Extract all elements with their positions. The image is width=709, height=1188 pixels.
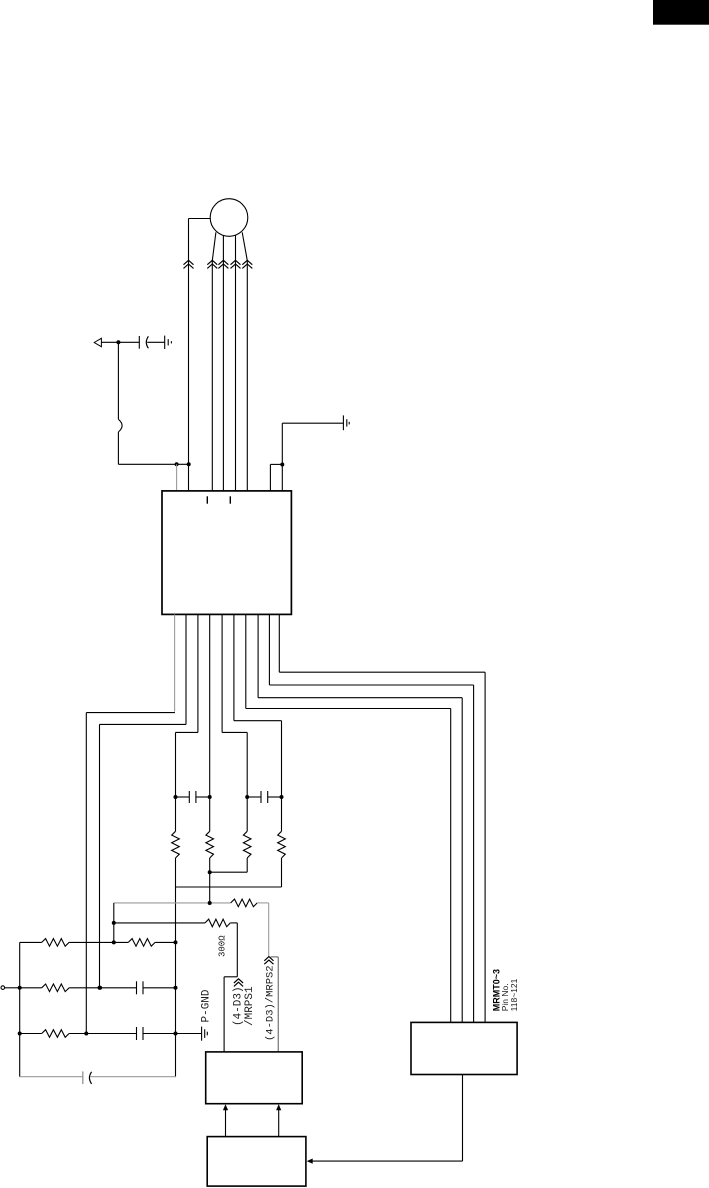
node J2 <box>175 462 179 466</box>
wire R6 to MRPS1 <box>230 922 237 924</box>
driver IC U1 <box>162 491 291 615</box>
resistor R3 <box>243 831 251 858</box>
wire p7 <box>245 614 247 708</box>
node J13 <box>98 986 102 990</box>
node J7 <box>208 870 212 874</box>
wire p4 <box>209 614 211 797</box>
wire p5 <box>221 614 223 732</box>
wire R6 left <box>114 922 205 924</box>
wire to ground G2 <box>282 422 343 424</box>
node J8 <box>208 901 212 905</box>
resistor R7 <box>42 939 69 947</box>
wire gray feedback <box>114 902 231 904</box>
wire bus left <box>19 942 21 1076</box>
wire R3 top <box>246 797 248 831</box>
wire W4 <box>235 235 237 491</box>
wire R3 bottom <box>246 858 248 872</box>
svg-text:118~121: 118~121 <box>509 978 519 1011</box>
node J14 <box>174 986 178 990</box>
wire R2 top <box>209 797 211 831</box>
node J11 <box>174 940 178 944</box>
resistor R1 <box>172 831 180 858</box>
connector arrow W5 <box>242 260 252 264</box>
wire R2 bottom <box>209 858 211 872</box>
node C2b <box>208 795 212 799</box>
capacitor C4 <box>136 981 138 994</box>
wire row1 <box>20 941 42 943</box>
node J6 <box>98 986 102 990</box>
wire p9 <box>268 614 270 685</box>
wire P-GND stem <box>176 1033 202 1035</box>
wire W2 slant <box>212 232 216 260</box>
off-page arrow <box>94 338 101 346</box>
wire row2 <box>20 987 42 989</box>
node J12 <box>18 986 22 990</box>
resistor R9 <box>42 984 69 992</box>
wire R5 tail gray <box>257 902 269 904</box>
wire row4 gray <box>20 1076 83 1078</box>
capacitor C2 <box>176 796 190 798</box>
wire p1 left <box>86 712 175 714</box>
wire R1 bottom <box>175 858 177 887</box>
capacitor C6 polarized <box>82 1071 84 1084</box>
node C2a <box>174 795 178 799</box>
wire R1 top <box>175 797 177 831</box>
wire gray corner down <box>113 903 115 943</box>
wire p8 <box>257 614 259 697</box>
node J16 <box>174 1032 178 1036</box>
wire p2 <box>185 614 187 724</box>
wire W3 <box>222 235 224 491</box>
node J4 <box>280 463 284 467</box>
wire bus right <box>175 887 177 1077</box>
node J1 <box>116 340 120 344</box>
connector CN3 <box>411 1022 517 1074</box>
wire p6 <box>233 614 235 720</box>
node J3 <box>187 462 191 466</box>
wire MRPS2 to CN <box>271 956 279 958</box>
connector CN2 <box>207 1137 306 1187</box>
wire stub J4 <box>270 463 282 465</box>
wire R4 bottom <box>281 858 283 887</box>
ground G3 P-GND <box>201 1027 203 1041</box>
wire row3 <box>20 1033 42 1035</box>
wire CN3 to CN2 <box>462 1075 464 1162</box>
node J9 <box>112 921 116 925</box>
svg-text:(4-D3)/MRPS2: (4-D3)/MRPS2 <box>265 965 277 1041</box>
connector arrow MRPS1 <box>234 979 243 983</box>
resistor R5 <box>231 899 258 907</box>
connector arrow W4 <box>231 260 241 264</box>
wire p1 gray <box>174 614 176 711</box>
resistor R4 <box>278 831 286 858</box>
wire motor left lead <box>189 218 211 220</box>
resistor R2 <box>206 831 214 858</box>
svg-text:/MRPS1: /MRPS1 <box>244 986 256 1026</box>
capacitor C3 <box>247 796 261 798</box>
resistor R8 <box>128 939 155 947</box>
resistor R10 <box>42 1030 69 1038</box>
svg-text:P-GND: P-GND <box>200 989 212 1022</box>
node J10 <box>112 940 116 944</box>
terminal T1 <box>1 986 5 990</box>
wire p3 <box>197 614 199 732</box>
wire G2 branch down <box>281 423 283 491</box>
arrow CN2-CN1 a <box>225 1106 227 1137</box>
wire W1 motor-U <box>188 219 190 491</box>
wire arrow to cap <box>101 341 139 343</box>
node C3a <box>245 795 249 799</box>
resistor R6 <box>205 919 230 927</box>
svg-text:300Ω: 300Ω <box>218 935 228 957</box>
capacitor C1 polarized <box>138 336 140 349</box>
connector arrow MRPS2 <box>264 957 273 961</box>
motor M1 <box>210 199 248 237</box>
arrow CN2-CN1 b <box>278 1106 280 1137</box>
connector CN1 <box>206 1052 303 1104</box>
node J15 <box>18 1032 22 1036</box>
pin mark 1 <box>206 496 208 503</box>
ground G1 <box>164 336 166 349</box>
capacitor C5 <box>136 1027 138 1040</box>
pin mark 2 <box>229 496 231 503</box>
wire W5 slant <box>242 232 247 260</box>
node C3b <box>280 795 284 799</box>
svg-text:(4-D3): (4-D3) <box>232 986 244 1026</box>
wire R4 top <box>281 797 283 831</box>
connector arrow W2 <box>207 260 217 264</box>
node J5 <box>84 1032 88 1036</box>
wire J1 down with hop <box>117 342 119 419</box>
black corner mark top-right <box>653 0 709 25</box>
wire stub gray into box <box>176 464 178 491</box>
wire horizontal to box <box>118 463 188 465</box>
wire p10 <box>278 614 280 672</box>
connector arrow W1 <box>184 260 194 264</box>
ground G2 <box>342 415 344 430</box>
wire R2R3 down <box>209 872 211 903</box>
connector arrow W3 <box>218 260 228 264</box>
